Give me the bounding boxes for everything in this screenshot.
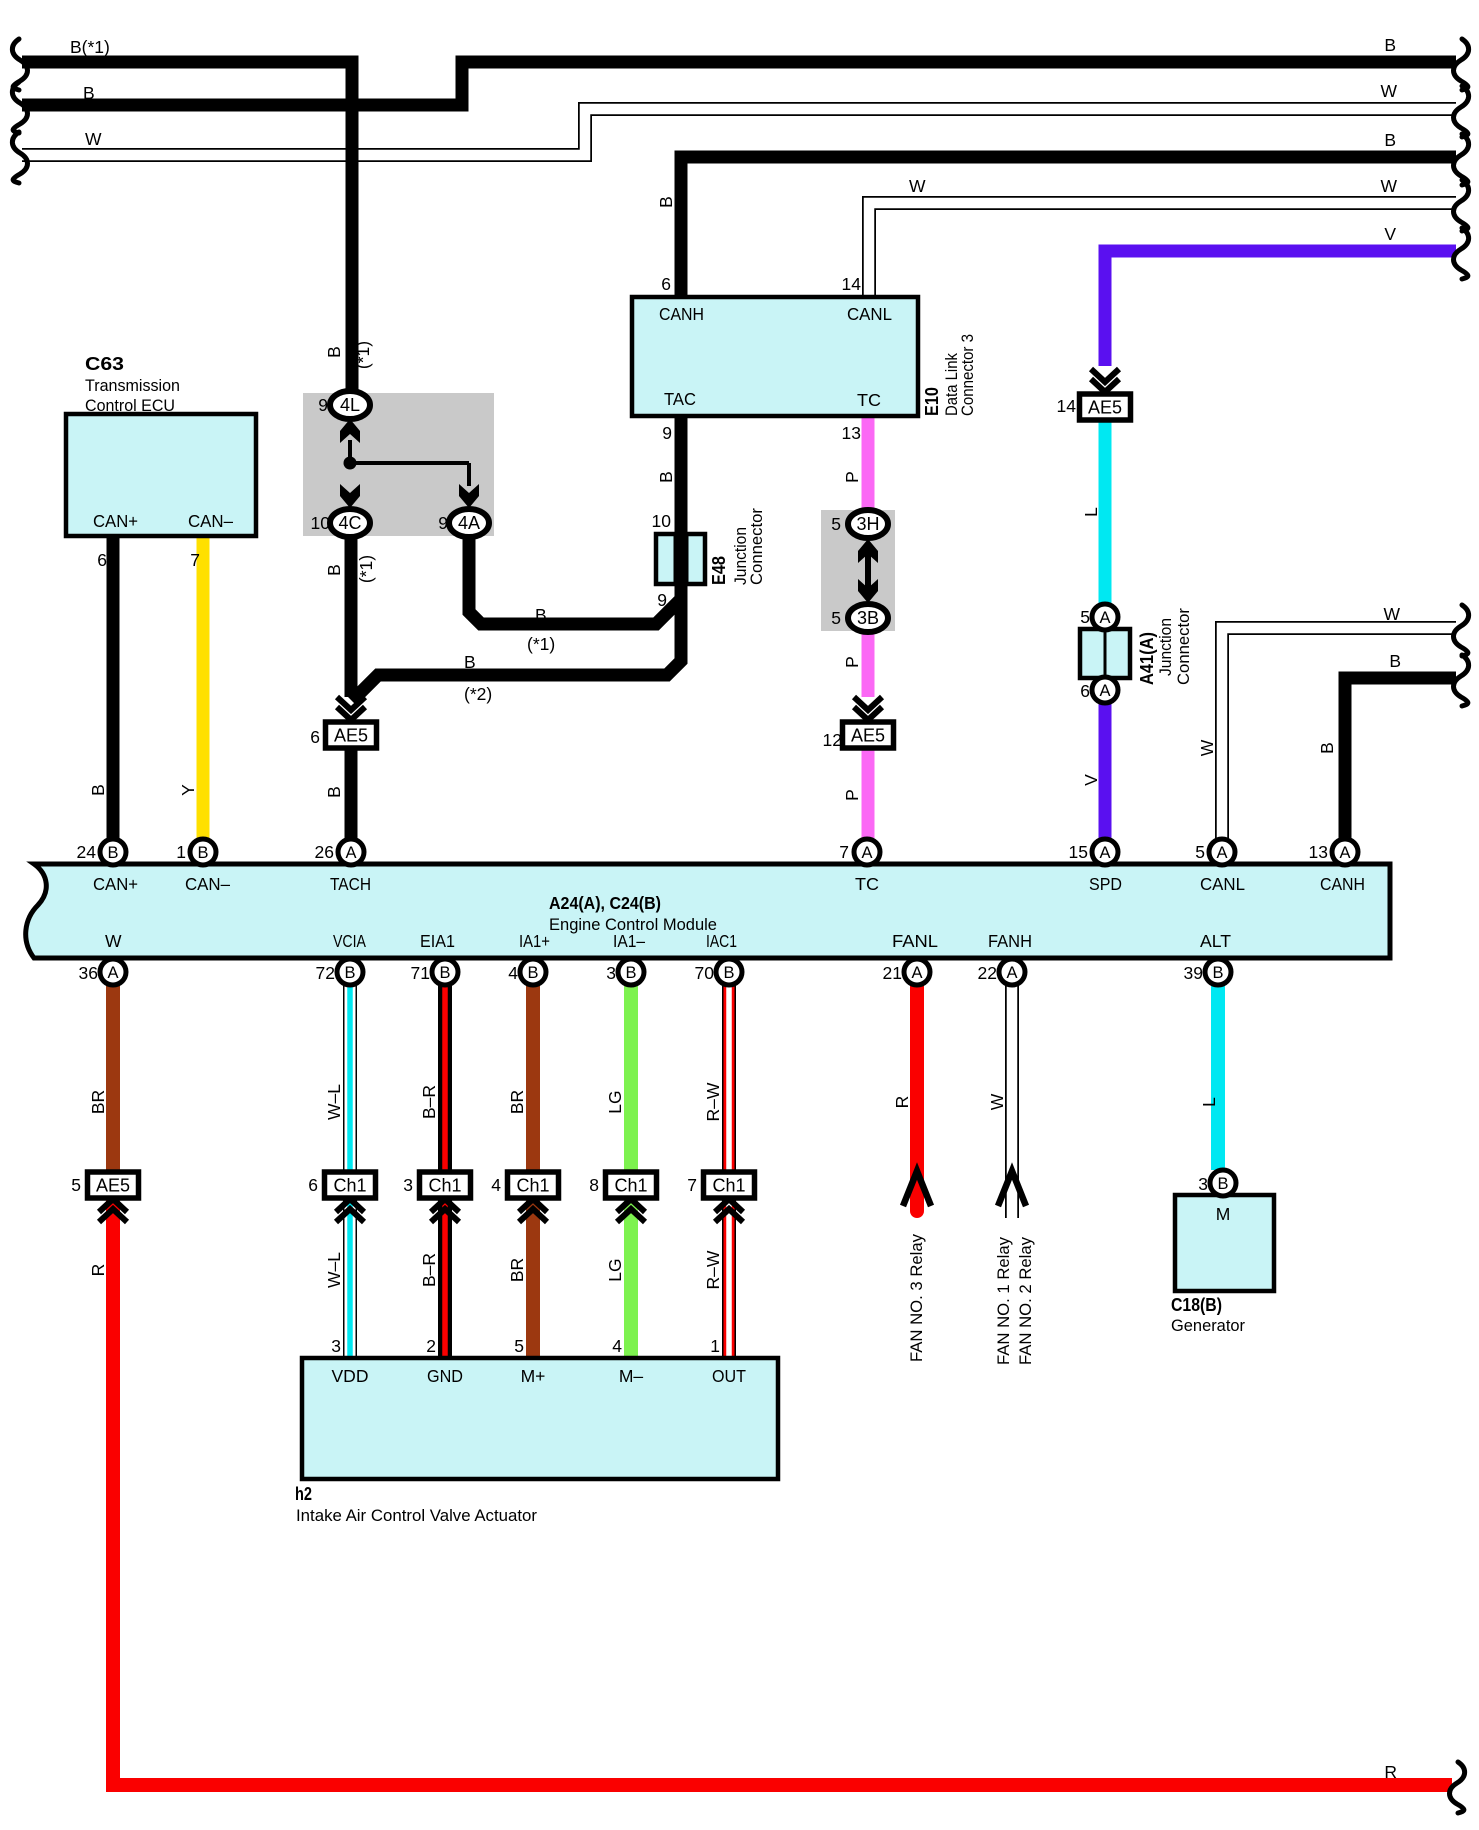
svg-text:W–L: W–L	[324, 1084, 344, 1120]
svg-text:A: A	[1099, 682, 1110, 700]
svg-text:B: B	[656, 471, 676, 483]
svg-text:5: 5	[514, 1336, 524, 1356]
svg-text:4: 4	[491, 1175, 501, 1195]
svg-text:W: W	[1380, 81, 1397, 101]
svg-text:Control ECU: Control ECU	[85, 396, 175, 415]
svg-text:6: 6	[310, 727, 320, 747]
svg-text:B: B	[439, 964, 450, 982]
svg-text:W: W	[987, 1093, 1007, 1110]
svg-text:Connector: Connector	[748, 508, 766, 585]
svg-text:B: B	[535, 605, 547, 625]
svg-text:E10: E10	[922, 387, 942, 416]
svg-text:A: A	[1006, 964, 1017, 982]
svg-text:5: 5	[71, 1175, 81, 1195]
svg-text:CANL: CANL	[1200, 874, 1245, 894]
svg-text:SPD: SPD	[1089, 874, 1122, 894]
svg-text:1: 1	[176, 842, 186, 862]
svg-text:BR: BR	[507, 1258, 527, 1282]
svg-text:3: 3	[331, 1336, 341, 1356]
svg-text:B: B	[344, 964, 355, 982]
svg-text:39: 39	[1184, 963, 1203, 983]
svg-text:21: 21	[883, 963, 902, 983]
svg-text:72: 72	[316, 963, 335, 983]
svg-text:CAN+: CAN+	[93, 511, 138, 531]
svg-text:AE5: AE5	[96, 1176, 130, 1196]
svg-text:B: B	[1384, 130, 1396, 150]
svg-text:C18(B): C18(B)	[1171, 1295, 1222, 1315]
svg-text:B(*1): B(*1)	[70, 37, 110, 57]
svg-text:13: 13	[1309, 842, 1328, 862]
svg-text:7: 7	[190, 550, 200, 570]
svg-text:Y: Y	[178, 784, 198, 796]
svg-text:14: 14	[842, 274, 862, 294]
svg-text:A: A	[911, 964, 922, 982]
svg-text:EIA1: EIA1	[420, 931, 455, 951]
svg-text:B: B	[1212, 964, 1223, 982]
svg-text:9: 9	[657, 590, 667, 610]
svg-text:M–: M–	[619, 1366, 644, 1386]
svg-text:B: B	[527, 964, 538, 982]
svg-text:8: 8	[589, 1175, 599, 1195]
svg-text:OUT: OUT	[712, 1366, 746, 1386]
svg-text:W–L: W–L	[324, 1252, 344, 1288]
svg-text:W: W	[1380, 176, 1397, 196]
svg-text:B–R: B–R	[419, 1085, 439, 1119]
svg-text:R–W: R–W	[703, 1250, 723, 1289]
svg-text:E48: E48	[709, 556, 729, 585]
svg-text:AE5: AE5	[851, 726, 885, 746]
svg-text:13: 13	[842, 423, 861, 443]
svg-text:CAN–: CAN–	[185, 874, 230, 894]
svg-text:7: 7	[687, 1175, 697, 1195]
svg-text:(*2): (*2)	[464, 684, 492, 704]
svg-text:A24(A), C24(B): A24(A), C24(B)	[549, 893, 661, 913]
svg-text:B: B	[324, 786, 344, 798]
svg-text:10: 10	[311, 513, 331, 533]
svg-text:6: 6	[661, 274, 671, 294]
svg-text:R: R	[892, 1096, 912, 1109]
svg-text:6: 6	[308, 1175, 318, 1195]
svg-text:BR: BR	[507, 1090, 527, 1114]
svg-text:Ch1: Ch1	[428, 1176, 461, 1196]
svg-text:IAC1: IAC1	[706, 931, 737, 951]
svg-text:R: R	[88, 1264, 108, 1277]
svg-text:V: V	[1384, 224, 1396, 244]
svg-text:P: P	[842, 789, 862, 801]
svg-text:A: A	[1339, 844, 1350, 862]
svg-text:22: 22	[978, 963, 997, 983]
svg-text:A: A	[1099, 609, 1110, 627]
svg-text:71: 71	[411, 963, 430, 983]
svg-text:GND: GND	[427, 1366, 463, 1386]
svg-text:5: 5	[831, 514, 841, 534]
svg-text:5: 5	[1080, 607, 1090, 627]
svg-text:14: 14	[1057, 396, 1077, 416]
svg-text:LG: LG	[605, 1090, 625, 1113]
svg-text:5: 5	[1195, 842, 1205, 862]
svg-text:(*1): (*1)	[356, 555, 376, 583]
svg-text:TACH: TACH	[330, 874, 371, 894]
svg-text:Ch1: Ch1	[333, 1176, 366, 1196]
svg-text:Junction: Junction	[1157, 618, 1175, 676]
svg-text:2: 2	[426, 1336, 436, 1356]
svg-text:A: A	[861, 844, 872, 862]
svg-text:AE5: AE5	[334, 726, 368, 746]
svg-text:FAN NO. 2 Relay: FAN NO. 2 Relay	[1016, 1237, 1035, 1365]
svg-text:CAN+: CAN+	[93, 874, 138, 894]
svg-text:R–W: R–W	[703, 1082, 723, 1121]
svg-text:LG: LG	[605, 1258, 625, 1281]
svg-text:CANH: CANH	[659, 304, 704, 324]
svg-text:70: 70	[695, 963, 715, 983]
svg-text:R: R	[1384, 1762, 1397, 1782]
svg-text:4C: 4C	[338, 513, 361, 533]
svg-text:VDD: VDD	[332, 1366, 369, 1386]
svg-text:W: W	[85, 129, 102, 149]
svg-text:6: 6	[97, 550, 107, 570]
svg-text:CANH: CANH	[1320, 874, 1365, 894]
svg-text:10: 10	[652, 511, 672, 531]
svg-text:B: B	[88, 784, 108, 796]
svg-text:Connector: Connector	[1175, 608, 1193, 685]
svg-text:B: B	[625, 964, 636, 982]
svg-text:B: B	[1217, 1175, 1228, 1193]
svg-text:(*1): (*1)	[353, 341, 373, 369]
svg-text:P: P	[842, 656, 862, 668]
svg-text:Ch1: Ch1	[516, 1176, 549, 1196]
svg-text:1: 1	[710, 1336, 720, 1356]
svg-text:12: 12	[823, 730, 842, 750]
svg-text:VCIA: VCIA	[333, 931, 366, 951]
svg-text:6: 6	[1080, 681, 1090, 701]
svg-text:36: 36	[79, 963, 98, 983]
svg-text:B: B	[83, 83, 95, 103]
svg-text:BR: BR	[88, 1090, 108, 1114]
svg-text:A: A	[1099, 844, 1110, 862]
svg-text:4: 4	[612, 1336, 622, 1356]
svg-text:L: L	[1199, 1097, 1219, 1107]
svg-text:B–R: B–R	[419, 1253, 439, 1287]
svg-text:15: 15	[1069, 842, 1088, 862]
svg-text:FANH: FANH	[988, 931, 1032, 951]
svg-text:M+: M+	[521, 1366, 546, 1386]
svg-text:B: B	[197, 844, 208, 862]
svg-text:TC: TC	[857, 390, 881, 410]
svg-text:CAN–: CAN–	[188, 511, 233, 531]
svg-text:V: V	[1081, 774, 1101, 786]
svg-text:3: 3	[606, 963, 616, 983]
svg-text:B: B	[107, 844, 118, 862]
svg-text:9: 9	[662, 423, 672, 443]
svg-text:M: M	[1216, 1204, 1231, 1224]
svg-text:AE5: AE5	[1088, 398, 1122, 418]
svg-text:FAN NO. 3 Relay: FAN NO. 3 Relay	[907, 1234, 926, 1362]
svg-text:L: L	[1081, 507, 1101, 517]
svg-text:5: 5	[831, 608, 841, 628]
svg-text:3: 3	[1198, 1174, 1208, 1194]
svg-text:B: B	[324, 346, 344, 358]
svg-text:TC: TC	[855, 874, 879, 894]
svg-text:B: B	[464, 652, 476, 672]
svg-text:3H: 3H	[856, 514, 879, 534]
svg-text:Transmission: Transmission	[85, 376, 180, 395]
svg-text:9: 9	[318, 395, 328, 415]
svg-text:Generator: Generator	[1171, 1316, 1245, 1335]
svg-text:Ch1: Ch1	[614, 1176, 647, 1196]
svg-text:4A: 4A	[458, 513, 480, 533]
svg-text:W: W	[1197, 739, 1217, 756]
svg-text:3B: 3B	[857, 608, 879, 628]
svg-text:IA1–: IA1–	[613, 931, 645, 951]
svg-text:IA1+: IA1+	[519, 931, 550, 951]
svg-text:B: B	[1389, 651, 1401, 671]
svg-text:4L: 4L	[340, 395, 360, 415]
svg-text:ALT: ALT	[1200, 931, 1231, 951]
svg-text:Ch1: Ch1	[712, 1176, 745, 1196]
svg-text:4: 4	[508, 963, 518, 983]
svg-text:3: 3	[403, 1175, 413, 1195]
svg-text:9: 9	[438, 513, 448, 533]
svg-text:(*1): (*1)	[527, 634, 555, 654]
svg-text:Intake Air Control Valve Actua: Intake Air Control Valve Actuator	[296, 1506, 537, 1525]
svg-text:A41(A): A41(A)	[1137, 632, 1157, 685]
svg-text:W: W	[909, 176, 926, 196]
svg-text:26: 26	[315, 842, 334, 862]
svg-text:A: A	[107, 964, 118, 982]
svg-text:FAN NO. 1 Relay: FAN NO. 1 Relay	[994, 1237, 1013, 1365]
svg-text:24: 24	[77, 842, 97, 862]
svg-text:B: B	[1384, 35, 1396, 55]
svg-text:B: B	[723, 964, 734, 982]
svg-text:P: P	[842, 471, 862, 483]
svg-text:B: B	[1317, 742, 1337, 754]
svg-text:TAC: TAC	[664, 389, 696, 409]
svg-text:A: A	[345, 844, 356, 862]
svg-text:FANL: FANL	[892, 931, 938, 951]
svg-text:B: B	[324, 564, 344, 576]
svg-text:B: B	[656, 196, 676, 208]
svg-text:W: W	[105, 931, 122, 951]
svg-text:h2: h2	[295, 1484, 312, 1504]
svg-text:C63: C63	[85, 354, 124, 374]
svg-text:7: 7	[839, 842, 849, 862]
svg-text:Connector 3: Connector 3	[959, 334, 977, 416]
svg-text:A: A	[1216, 844, 1227, 862]
svg-text:CANL: CANL	[847, 304, 892, 324]
svg-text:W: W	[1383, 604, 1400, 624]
